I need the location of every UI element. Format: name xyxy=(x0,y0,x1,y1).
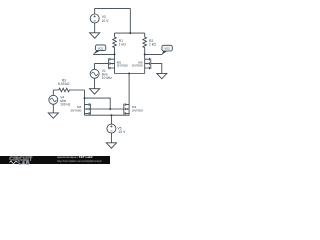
label V1 value xyxy=(102,69,112,80)
label V5 value xyxy=(117,126,126,134)
wire top rail xyxy=(115,32,145,34)
resistor R3 xyxy=(59,88,85,92)
voltage source V4 xyxy=(49,95,58,104)
svg-text:2N7000: 2N7000 xyxy=(132,109,143,113)
watermark title text xyxy=(57,156,93,159)
svg-text:-10 V: -10 V xyxy=(117,130,126,134)
svg-text:1 kΩ: 1 kΩ xyxy=(119,43,126,47)
wire M3 gate to M4 gate xyxy=(91,108,124,110)
watermark bar xyxy=(0,156,110,165)
resistor R1 xyxy=(113,33,117,54)
label M6 xyxy=(132,60,143,67)
node M3 drain junction xyxy=(84,97,86,99)
label R2 value xyxy=(149,39,156,47)
svg-text:6.49 kΩ: 6.49 kΩ xyxy=(58,82,70,86)
node V5 tap junction xyxy=(110,114,112,116)
svg-text:2N7000: 2N7000 xyxy=(70,109,81,113)
svg-text:2N7000: 2N7000 xyxy=(132,64,143,68)
node M5 drain junction xyxy=(114,53,116,55)
label V4 value xyxy=(60,96,71,107)
node gate wire junction xyxy=(109,108,111,110)
net flag VO2 xyxy=(162,45,172,54)
transistor M3 xyxy=(85,103,91,115)
wire M3 diode connection xyxy=(85,98,111,109)
node M6 drain junction xyxy=(144,53,146,55)
svg-text:LAB: LAB xyxy=(18,160,30,165)
ground under V4 xyxy=(48,104,58,118)
node common source junction xyxy=(128,73,130,75)
wire V1 to M5 gate xyxy=(95,64,109,70)
ground under V1 xyxy=(90,78,100,94)
svg-text:10 V: 10 V xyxy=(102,19,110,23)
voltage source V5 xyxy=(107,115,116,133)
svg-text:VO2: VO2 xyxy=(164,47,170,51)
wire source rail xyxy=(85,114,130,116)
svg-text:1 kΩ: 1 kΩ xyxy=(149,43,156,47)
wire VO2 to R2 bottom xyxy=(145,53,163,55)
voltage source V3 xyxy=(90,14,99,23)
transistor M4 xyxy=(124,103,129,115)
wire common source node xyxy=(115,73,145,75)
voltage source V1 xyxy=(90,69,99,78)
watermark url text xyxy=(57,160,102,163)
label M4 xyxy=(132,105,143,112)
svg-text:10 kHz: 10 kHz xyxy=(102,76,112,80)
ground under V3 xyxy=(90,23,100,38)
transistor M6 xyxy=(145,54,151,73)
label R3 value xyxy=(58,79,70,87)
wire R3 to M3 drain xyxy=(84,90,86,105)
CircuitLab logo xyxy=(0,156,56,165)
label R1 value xyxy=(119,39,126,47)
svg-text:VO1: VO1 xyxy=(98,46,104,50)
wire M6 gate to ground xyxy=(151,64,162,74)
label M5 xyxy=(117,60,128,67)
ground at M6 gate xyxy=(157,73,167,78)
label V3 value xyxy=(102,15,110,23)
net flag VO1 xyxy=(93,45,106,55)
wire V3 top to rail xyxy=(95,9,131,33)
wire node to M4 drain xyxy=(128,74,130,105)
svg-text:2N7000: 2N7000 xyxy=(117,64,128,68)
svg-text:100 Hz: 100 Hz xyxy=(60,102,71,106)
wire VO1 to R1 bottom xyxy=(93,53,114,55)
label M3 xyxy=(70,105,81,112)
transistor M5 xyxy=(109,54,115,73)
node rail junction xyxy=(129,32,131,34)
wire V4 to R3 xyxy=(53,90,59,95)
resistor R2 xyxy=(143,33,147,54)
ground under V5 xyxy=(106,133,116,148)
